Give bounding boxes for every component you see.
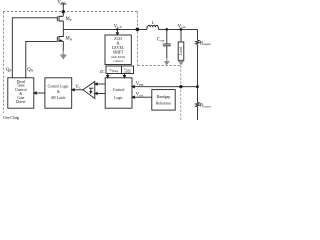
stub sub-box B to control logic: [124, 74, 126, 76]
svg-text:Control Logic: Control Logic: [48, 84, 70, 88]
ground arrow below MN: [60, 55, 66, 60]
svg-text:Control: Control: [113, 88, 125, 92]
svg-text:SHIFT: SHIFT: [113, 50, 124, 54]
hysteresis symbol: [89, 88, 93, 92]
svg-text:VC: VC: [75, 85, 81, 90]
wire V_ref: [135, 96, 152, 98]
junction dot feedback tap: [196, 86, 198, 88]
svg-text:Bandgap: Bandgap: [157, 95, 171, 99]
resistor R_upper: [196, 40, 200, 45]
comparator input wire lower: [97, 93, 105, 95]
svg-text:Driver: Driver: [16, 100, 27, 104]
svg-text:ZC: ZC: [100, 69, 105, 74]
control logic box text: [113, 88, 125, 100]
sub-box V_H,neg: [106, 66, 122, 74]
svg-text:(0:M): (0:M): [124, 71, 130, 74]
MP source arrow: [60, 15, 62, 17]
junction dot load: [180, 29, 182, 31]
svg-text:VH,neg: VH,neg: [109, 68, 119, 73]
svg-text:On-Chip: On-Chip: [3, 115, 20, 120]
svg-text:MP: MP: [66, 17, 72, 22]
on-chip boundary right edge lower: [180, 66, 182, 121]
pad dot supply crossing: [62, 11, 64, 13]
svg-text:VLX: VLX: [114, 24, 123, 29]
svg-text:Logic: Logic: [114, 96, 123, 100]
svg-text:QN: QN: [27, 68, 33, 73]
resistor R_lower: [196, 102, 200, 107]
svg-text:Load: Load: [179, 47, 183, 55]
wire node to ZCD block: [116, 29, 118, 32]
bandgap reference box: [152, 90, 175, 111]
svg-text:Rupper: Rupper: [200, 41, 212, 46]
transistor MP (PMOS): [59, 16, 63, 21]
ZCD box text: [111, 37, 125, 63]
pad dot V_LX boundary: [136, 28, 139, 31]
load box: [178, 42, 184, 60]
on-chip boundary step edge: [138, 65, 181, 67]
sub-box V_H,pos: [122, 66, 134, 74]
svg-text:MN: MN: [66, 37, 73, 42]
svg-text:&: &: [117, 41, 120, 45]
svg-text:VFB: VFB: [136, 82, 144, 87]
wire Q_N gate drive: [26, 41, 58, 77]
wire V_c output: [74, 89, 83, 91]
ZCD &amp; level shift box: [105, 35, 131, 65]
junction dot ZCD tap: [117, 29, 119, 31]
ground arrow below load: [178, 61, 183, 65]
svg-text:control: control: [113, 59, 123, 63]
control logic &amp; SR latch box: [45, 78, 72, 108]
comparator U1: [83, 82, 95, 99]
on-chip boundary top edge: [3, 11, 138, 13]
wire MN source to ground: [62, 41, 64, 50]
svg-text:Cout: Cout: [157, 38, 165, 43]
on-chip boundary left edge: [3, 12, 5, 114]
svg-text:&: &: [57, 90, 60, 94]
svg-text:SR Latch: SR Latch: [51, 96, 65, 100]
svg-text:Vout: Vout: [178, 24, 186, 29]
wire Q_P gate drive: [12, 18, 57, 78]
stub sub-box A to control logic: [107, 74, 109, 76]
wire MP drain to node: [62, 21, 64, 29]
svg-text:Rlower: Rlower: [200, 104, 212, 109]
comparator input wire upper: [97, 83, 105, 85]
node V_LX wire: [63, 28, 147, 30]
supply rail V_bat bar: [60, 3, 66, 5]
svg-text:bat: bat: [61, 1, 65, 5]
capacitor C_out: [166, 29, 168, 44]
wire L to output: [158, 28, 197, 30]
svg-text:LEVEL: LEVEL: [112, 46, 125, 50]
bandgap box text: [156, 95, 172, 105]
junction dot C_out: [166, 29, 168, 31]
MN source arrow: [59, 40, 62, 41]
wire supply to MP source: [62, 4, 64, 16]
dead time box text: [15, 80, 27, 104]
svg-text:L: L: [152, 20, 155, 25]
SR latch box text: [48, 84, 70, 100]
svg-text:ZCD: ZCD: [114, 37, 122, 41]
wire V_FB: [135, 86, 198, 88]
control logic box: [105, 78, 132, 108]
pad dot V_FB boundary: [180, 86, 182, 88]
svg-text:Vref: Vref: [136, 93, 144, 98]
svg-text:Reference: Reference: [156, 102, 172, 106]
transistor MN (NMOS): [59, 29, 63, 41]
dead time control &amp; gate driver box: [8, 78, 34, 108]
svg-text:QP: QP: [6, 68, 11, 73]
ground arrow below C_out: [164, 61, 169, 65]
feedback divider wire top: [197, 29, 199, 40]
inductor L: [146, 27, 149, 29]
on-chip boundary right edge upper: [137, 12, 139, 66]
wire SR latch to gate driver: [36, 92, 45, 94]
